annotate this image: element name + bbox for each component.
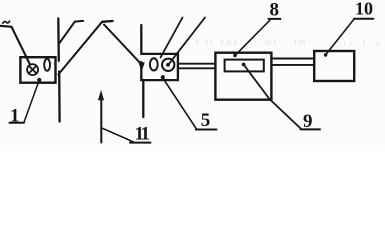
slanted lead D2 from detector dot: [168, 18, 205, 65]
stand rod V1: [57, 18, 60, 60]
node dot on box 1 bottom: [37, 78, 41, 82]
faint scan watermark upper right: [196, 38, 380, 145]
leader line to label 5: [163, 79, 196, 129]
rod V2 above box 5: [140, 25, 142, 54]
leader line to label 9: [244, 65, 301, 129]
svg-text:.·. —- ··. ... ··· ..: .·. —- ··. ... ··· ..: [196, 136, 346, 145]
svg-text:1: 1: [10, 106, 20, 127]
underline of label 1: [10, 122, 25, 124]
box 1 (light source housing): [20, 57, 55, 82]
rod peak right branch with down arrow: [104, 25, 141, 64]
svg-text:t.tl.zds. i··ml···tm··: t.tl.zds. i··ml···tm··: [196, 38, 316, 47]
svg-text:10: 10: [355, 0, 373, 19]
box 10 (recorder): [314, 51, 354, 81]
lamp circle-X: [27, 64, 38, 75]
arrowhead down into box 5: [138, 62, 144, 72]
cable pair box8 to box10: [272, 59, 315, 65]
dot for leader 8: [233, 54, 237, 58]
rod peak left branch: [58, 22, 102, 75]
cable pair box5 to box8: [178, 64, 215, 69]
underline of label 10: [354, 18, 373, 20]
underline of label 8: [269, 18, 281, 20]
svg-text:11: 11: [135, 123, 150, 144]
up arrow head: [98, 90, 104, 100]
underline of label 5: [196, 129, 217, 131]
rod peak top bar: [102, 20, 113, 23]
leader line to label 11: [103, 128, 135, 142]
dot for leader 10: [324, 53, 328, 57]
clamp branch on rod V1: [59, 21, 83, 44]
leader line to label 10: [326, 19, 355, 55]
display window 9 inside box 8: [225, 60, 264, 72]
rod V3 below box 5: [142, 80, 144, 117]
leader line to label 1: [24, 81, 39, 123]
node dot on box 5 bottom: [161, 75, 165, 79]
svg-text:9: 9: [303, 111, 313, 132]
box 8 (amplifier/meter): [215, 53, 271, 100]
box 5 (photocell housing): [141, 54, 178, 80]
underline of label 9: [301, 128, 321, 130]
dot for leader 9: [242, 63, 246, 67]
leader line to label 8: [235, 20, 269, 55]
svg-text:5: 5: [201, 110, 211, 131]
wire from mains to lamp: [0, 26, 30, 64]
svg-text:8: 8: [270, 0, 280, 21]
mains tilde symbol: [3, 21, 10, 23]
up arrow (item 11) stem: [100, 98, 102, 143]
lens oval in box 5: [150, 58, 158, 70]
slanted lead D1 from oval: [161, 18, 183, 58]
detector circle with dot in box 5: [162, 59, 174, 71]
condenser lens oval in box 1: [44, 59, 50, 71]
underline of label 11: [130, 142, 151, 144]
